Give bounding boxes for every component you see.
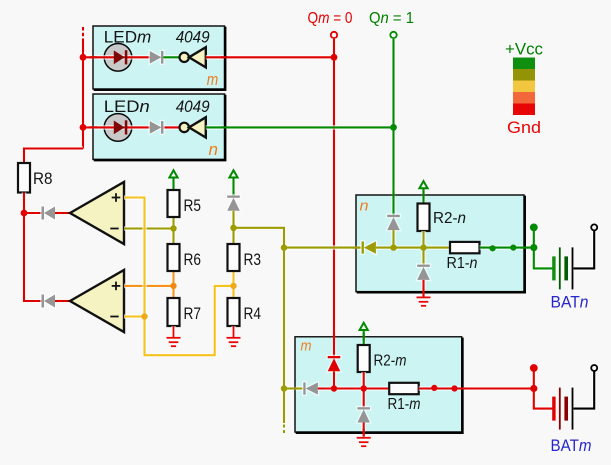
- diode Qn clamp (gray, pointing up): [387, 215, 400, 230]
- junction R8 / U1 output: [21, 210, 28, 217]
- wire olive into n box: [284, 245, 362, 250]
- wire Qn net vertical (green): [391, 38, 396, 215]
- LED block m box: [93, 26, 225, 90]
- ground in n box: [417, 297, 431, 305]
- terminal BATm: [591, 365, 597, 371]
- diode (gray) in LEDn block: [150, 121, 164, 134]
- wire left red bus dashed continuation (top): [81, 27, 86, 40]
- wire diode to U1 apex (red): [55, 211, 70, 216]
- resistor R3: [228, 244, 240, 271]
- wire node to gnd clamp (red, m box): [361, 389, 366, 408]
- power arrow above R5: [169, 170, 177, 190]
- LED box m border redraw: [93, 26, 225, 90]
- wire R2-n to node (olive): [421, 231, 426, 248]
- ground in m box: [357, 438, 371, 446]
- svg-text:m: m: [207, 70, 219, 89]
- diode m gnd clamp (gray, pointing up): [357, 407, 370, 422]
- wire R8 to op-amp diodes (red): [24, 193, 42, 302]
- node dot (red): [451, 385, 457, 391]
- wire orange U2+: [124, 284, 174, 289]
- ground below R7: [167, 326, 181, 346]
- svg-text:n: n: [360, 198, 369, 215]
- inverter U-m triangle 4049: [189, 47, 206, 67]
- charger box n: [356, 195, 525, 292]
- svg-text:R1-m: R1-m: [388, 396, 421, 413]
- resistor R6: [168, 244, 180, 271]
- resistor R2-m: [358, 345, 370, 372]
- inverter U-n bubble: [180, 123, 189, 132]
- U2 minus sign: [110, 316, 118, 318]
- svg-text:m: m: [301, 338, 312, 355]
- wire R5-R6 link (olive): [171, 217, 176, 244]
- wire LEDm anode (red): [83, 55, 164, 60]
- junction Qm / LEDm: [331, 54, 338, 61]
- LED diode symbol (maroon, n): [114, 120, 128, 134]
- wire inverter input to Qm net (red): [206, 55, 334, 60]
- junction R2-n node (olive): [420, 244, 426, 250]
- charger box m border redraw: [295, 337, 463, 433]
- svg-text:Gnd: Gnd: [507, 118, 541, 137]
- junction Qn / LEDn: [390, 124, 397, 131]
- svg-text:R8: R8: [33, 169, 53, 188]
- svg-text:LEDm: LEDm: [104, 28, 152, 47]
- resistor R1-m: [389, 383, 419, 394]
- wire R1-m to BATm (red): [419, 386, 534, 391]
- wire R2-m to node (red): [361, 372, 366, 389]
- wire gnd clamp stub (red): [361, 423, 366, 439]
- resistor R7: [168, 298, 180, 326]
- op-amp U2: [70, 270, 124, 332]
- LED lamp LEDn: [104, 114, 132, 142]
- wire olive into m box: [284, 386, 303, 391]
- junction BATn top dot: [530, 224, 538, 232]
- wire R1-n to BATn (green): [480, 245, 534, 250]
- wire olive U1-: [124, 226, 174, 231]
- svg-text:4049: 4049: [176, 97, 210, 116]
- svg-text:LEDn: LEDn: [104, 97, 150, 116]
- junction BATm node: [530, 385, 537, 392]
- svg-text:4049: 4049: [176, 28, 210, 47]
- wire Qm net vertical (red): [332, 38, 337, 356]
- svg-text:R5: R5: [184, 196, 202, 215]
- svg-text:BATn: BATn: [551, 293, 589, 312]
- battery BATm black lead: [573, 371, 594, 409]
- diode Qm clamp (red, pointing up): [328, 356, 341, 371]
- wire diode to inverter bubble (green): [163, 55, 179, 60]
- node dot (green): [510, 245, 516, 251]
- svg-text:R3: R3: [244, 250, 262, 269]
- wire diode to R3 (olive): [231, 211, 236, 244]
- power arrow above R2-n: [419, 181, 427, 203]
- svg-text:BATm: BATm: [551, 436, 592, 455]
- wire yellow U2- stub: [124, 314, 145, 319]
- wire LEDn anode (red): [83, 125, 180, 130]
- terminal Qm: [331, 32, 337, 38]
- resistor R5: [168, 190, 180, 217]
- inverter U-n triangle 4049: [189, 117, 206, 137]
- junction left bus / LEDm: [80, 54, 87, 61]
- junction olive / m box: [281, 385, 287, 391]
- wire gnd clamp stub (red): [421, 280, 426, 298]
- inverter U-m bubble: [180, 53, 189, 62]
- junction R3 top (olive): [230, 225, 236, 231]
- wire R3-R4 link (yellow): [231, 271, 236, 298]
- battery BATm plates: [552, 388, 573, 430]
- svg-text:+Vcc: +Vcc: [505, 40, 543, 59]
- svg-text:R7: R7: [184, 304, 202, 323]
- wire olive net R3-top to boxes: [234, 228, 285, 248]
- diode U2 output (gray, pointing left): [42, 295, 56, 308]
- charger box m: [295, 337, 463, 433]
- svg-text:R1-n: R1-n: [447, 255, 478, 272]
- wire olive dashed continuation (bottom): [282, 425, 287, 436]
- battery BATn wires (green): [534, 227, 554, 268]
- diode above R3 (gray, pointing up): [227, 196, 240, 211]
- junction olive corner: [281, 244, 287, 250]
- terminal Qn: [390, 32, 396, 38]
- LED diode symbol (maroon): [114, 50, 128, 64]
- diode (gray) in LEDm block: [150, 51, 164, 64]
- charger box n border redraw: [356, 195, 525, 292]
- terminal BATn: [591, 224, 597, 230]
- svg-text:n: n: [209, 140, 219, 159]
- wire diode to R1-m (red): [318, 386, 389, 391]
- battery BATn black lead: [573, 230, 594, 268]
- diode n gnd clamp (gray, pointing up): [417, 265, 430, 280]
- svg-text:R2-n: R2-n: [433, 210, 466, 227]
- junction R6/R7 (orange): [170, 283, 176, 289]
- resistor R8: [18, 163, 30, 193]
- svg-text:Qn = 1: Qn = 1: [369, 10, 414, 27]
- LED box n border redraw: [93, 94, 225, 160]
- wire diode to R1-n (olive): [376, 245, 450, 250]
- wire olive down to m box: [282, 248, 287, 423]
- diode m input (gray, pointing left): [303, 382, 318, 394]
- junction R2-m node (red): [361, 385, 367, 391]
- legend color bar: [513, 58, 535, 116]
- svg-text:R2-m: R2-m: [374, 353, 407, 370]
- node dot (red): [431, 385, 437, 391]
- junction left bus / LEDn: [80, 124, 87, 131]
- U1 minus sign: [110, 228, 118, 230]
- junction Qn branch (olive): [390, 244, 396, 250]
- wire yellow net U1+ feedback: [124, 198, 234, 356]
- junction yellow U2-: [141, 313, 147, 319]
- diode U1 output (gray, pointing left): [42, 207, 56, 220]
- svg-text:R4: R4: [244, 304, 262, 323]
- power arrow above R3: [229, 170, 237, 195]
- wire Qm diode to node (red): [332, 371, 337, 388]
- junction R5/R6 (olive): [170, 225, 176, 231]
- junction Qm branch (red): [331, 385, 337, 391]
- wire Qn diode to node (olive): [391, 230, 396, 248]
- op-amp U1: [70, 182, 124, 244]
- junction BATm top dot: [530, 364, 538, 372]
- LED lamp LEDm: [104, 44, 132, 72]
- resistor R4: [228, 298, 240, 326]
- resistor R2-n: [418, 204, 430, 232]
- U1 plus sign: [112, 193, 121, 202]
- power arrow above R2-m: [360, 323, 368, 345]
- svg-text:Qm = 0: Qm = 0: [308, 10, 353, 27]
- wire left red bus vertical: [81, 40, 86, 149]
- wire junction to U1 diode (red): [24, 211, 42, 216]
- ground below R4: [227, 326, 241, 346]
- LED block n box: [93, 94, 225, 160]
- svg-text:R6: R6: [184, 250, 202, 269]
- diode n input (olive, pointing left): [362, 241, 376, 253]
- junction BATn node: [530, 244, 537, 251]
- resistor R1-n: [450, 242, 480, 253]
- node dot (green): [490, 245, 496, 251]
- wire diode to U2 apex (red): [55, 299, 70, 304]
- wire R6-R7 link (orange): [171, 271, 176, 298]
- battery BATn plates: [552, 247, 573, 289]
- wire cores over borders: [90, 57, 529, 436]
- junction R3/R4 (yellow): [230, 283, 236, 289]
- battery BATm wires (red): [534, 368, 554, 409]
- wire inverter input to Qn net (green): [206, 125, 394, 130]
- wire left bus to R8: [24, 149, 83, 164]
- U2 plus sign: [112, 282, 121, 291]
- wire node to gnd clamp (olive, n box): [421, 248, 426, 265]
